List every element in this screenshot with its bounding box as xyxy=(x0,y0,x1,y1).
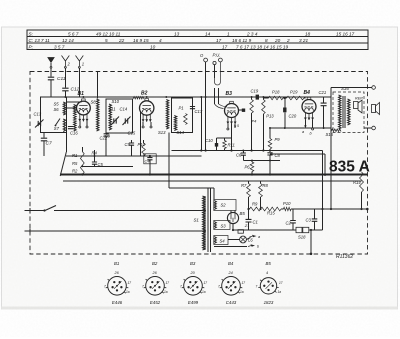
svg-text:P10: P10 xyxy=(138,142,146,147)
coil S8 xyxy=(74,105,77,132)
svg-text:15 16 17: 15 16 17 xyxy=(336,31,355,36)
capacitor C20 xyxy=(284,98,286,108)
choke S18 xyxy=(296,227,302,232)
svg-text:S15: S15 xyxy=(326,132,334,137)
resistor R14 xyxy=(360,172,364,192)
svg-text:B5: B5 xyxy=(240,211,246,216)
svg-text:P.U.: P.U. xyxy=(213,53,221,58)
svg-text:7 6 17 13 18 14 16 15 19: 7 6 17 13 18 14 16 15 19 xyxy=(236,44,289,49)
svg-text:P6: P6 xyxy=(245,165,251,170)
loudspeaker xyxy=(372,105,376,113)
IF box frame xyxy=(172,98,193,133)
capacitor C12 xyxy=(62,88,68,91)
svg-text:17: 17 xyxy=(128,281,132,285)
wire IF box down xyxy=(168,133,170,175)
resistor R13 xyxy=(262,97,264,100)
junction dots on buses xyxy=(81,173,83,175)
IF transformer coil S14 xyxy=(174,116,177,131)
svg-text:C443: C443 xyxy=(226,300,237,305)
svg-text:R15: R15 xyxy=(267,211,275,216)
svg-text:17: 17 xyxy=(166,281,170,285)
HT return line xyxy=(233,229,297,231)
svg-text:5 6 7: 5 6 7 xyxy=(68,31,79,36)
svg-text:C14: C14 xyxy=(120,107,128,112)
svg-text:1: 1 xyxy=(227,31,230,36)
svg-text:S13: S13 xyxy=(158,130,166,135)
svg-text:5: 5 xyxy=(105,38,108,43)
svg-text:17: 17 xyxy=(279,281,283,285)
svg-text:R2: R2 xyxy=(72,169,78,174)
svg-text:S7: S7 xyxy=(54,126,60,131)
svg-text:26: 26 xyxy=(152,271,158,275)
HT bus line xyxy=(66,96,331,98)
chassis bus thick xyxy=(60,174,368,176)
svg-text:B4: B4 xyxy=(304,90,311,96)
tuned circuit box S5 S6 S7 xyxy=(40,97,66,133)
svg-text:S4: S4 xyxy=(220,239,226,244)
svg-text:C19: C19 xyxy=(251,89,259,94)
svg-text:18 6 11 9: 18 6 11 9 xyxy=(232,38,252,43)
S16 core xyxy=(342,96,344,128)
svg-text:20: 20 xyxy=(190,271,196,275)
svg-text:P13: P13 xyxy=(266,114,274,119)
svg-text:3 21: 3 21 xyxy=(299,38,309,43)
mains terminal bottom xyxy=(25,230,205,232)
bandfilter box S10 S11 xyxy=(106,99,132,133)
svg-text:a: a xyxy=(258,235,260,239)
coil S7 xyxy=(63,119,65,132)
transformer core xyxy=(207,188,209,252)
output terminal top xyxy=(331,87,372,89)
svg-text:17: 17 xyxy=(216,38,222,43)
svg-text:C7: C7 xyxy=(46,141,52,147)
valve B4 xyxy=(302,100,316,114)
svg-text:b: b xyxy=(257,245,259,249)
svg-text:2 3 4: 2 3 4 xyxy=(246,31,258,36)
svg-text:S3: S3 xyxy=(221,224,227,229)
dashed chassis border xyxy=(30,72,368,255)
bias tap line xyxy=(82,165,133,167)
mains switch xyxy=(43,209,45,211)
earth terminal xyxy=(48,58,54,63)
svg-text:R11362: R11362 xyxy=(336,254,353,260)
svg-text:5: 5 xyxy=(237,124,239,128)
svg-text:13: 13 xyxy=(174,31,180,36)
wire B3 cathode to bus xyxy=(231,124,233,151)
S16 secondary winding xyxy=(348,99,351,125)
svg-text:12 14: 12 14 xyxy=(62,38,74,43)
svg-text:P4: P4 xyxy=(252,119,258,124)
capacitor C22 xyxy=(104,134,109,136)
AVC bus line left xyxy=(66,155,201,157)
right HT vertical xyxy=(330,97,332,209)
svg-text:a: a xyxy=(302,130,304,134)
choke S15 xyxy=(331,129,341,132)
svg-text:B4: B4 xyxy=(228,261,234,266)
svg-text:E499: E499 xyxy=(188,300,199,305)
svg-text:20: 20 xyxy=(274,38,281,43)
svg-text:C15: C15 xyxy=(128,131,136,136)
svg-text:1a: 1a xyxy=(278,290,282,294)
svg-text:1: 1 xyxy=(82,62,84,67)
svg-text:8: 8 xyxy=(265,38,268,43)
coil S5 S6 xyxy=(63,102,65,115)
svg-text:B5: B5 xyxy=(266,261,272,266)
svg-text:S8: S8 xyxy=(91,100,97,105)
svg-text:C16: C16 xyxy=(70,131,78,136)
capacitor C21 xyxy=(323,97,325,103)
svg-text:C21: C21 xyxy=(319,90,327,95)
svg-text:C11: C11 xyxy=(57,76,66,82)
svg-text:S11: S11 xyxy=(109,107,116,112)
capacitor C11 xyxy=(48,77,54,80)
fuse Z1 xyxy=(238,230,243,234)
HT line junctions xyxy=(247,208,249,210)
svg-text:S18: S18 xyxy=(298,235,306,240)
svg-text:3 5 7: 3 5 7 xyxy=(54,44,65,49)
B3 cathode wires xyxy=(227,124,229,128)
capacitor C4 xyxy=(144,154,156,164)
svg-text:17: 17 xyxy=(222,44,228,49)
svg-text:B3: B3 xyxy=(190,261,196,266)
svg-text:B2: B2 xyxy=(152,261,158,266)
B4 cathode wires xyxy=(304,120,306,126)
svg-text:24: 24 xyxy=(228,271,233,275)
cathode return line xyxy=(270,127,331,129)
transformer primary S1 xyxy=(203,196,205,250)
capacitor C3 xyxy=(314,209,316,218)
detector bus line xyxy=(243,160,280,162)
svg-text:E452: E452 xyxy=(150,300,161,305)
svg-text:R8: R8 xyxy=(263,183,269,188)
svg-text:R5: R5 xyxy=(72,161,78,166)
svg-text:7: 7 xyxy=(256,284,258,288)
svg-text:S2: S2 xyxy=(221,203,227,208)
svg-text:1823: 1823 xyxy=(264,300,274,305)
svg-text:C2: C2 xyxy=(286,221,292,226)
svg-text:17: 17 xyxy=(242,281,246,285)
svg-text:4: 4 xyxy=(159,38,162,43)
svg-text:C20: C20 xyxy=(289,114,297,119)
svg-text:S:: S: xyxy=(29,31,34,36)
trimmer alignment table frame xyxy=(27,30,368,50)
valve B3 xyxy=(225,104,239,118)
grid wire to B1 xyxy=(66,101,81,103)
svg-text:B1: B1 xyxy=(114,261,120,266)
S16 primary winding xyxy=(339,95,342,129)
svg-text:1a: 1a xyxy=(240,290,244,294)
svg-text:16 9 15: 16 9 15 xyxy=(133,38,149,43)
P.U. terminal ring xyxy=(204,58,208,62)
IF transformer coil S13 xyxy=(166,100,169,130)
capacitor C2 xyxy=(292,209,294,220)
svg-text:1a: 1a xyxy=(126,290,130,294)
pilot lamp L6 xyxy=(240,236,247,243)
capacitor C17 xyxy=(190,107,195,109)
mains terminal top xyxy=(25,210,45,212)
winding S4 xyxy=(214,237,216,244)
svg-text:b: b xyxy=(310,132,312,136)
screen grid bus line xyxy=(172,150,323,152)
capacitor C1 xyxy=(248,209,250,219)
svg-text:S6: S6 xyxy=(54,107,60,112)
svg-text:E446: E446 xyxy=(112,300,123,305)
svg-text:P19: P19 xyxy=(290,90,298,95)
grid capacitor C8 xyxy=(242,109,245,112)
resistor P18 xyxy=(269,96,284,100)
svg-text:C13: C13 xyxy=(34,112,42,117)
svg-text:S10: S10 xyxy=(112,99,120,104)
valve B2 xyxy=(140,101,154,115)
svg-text:S1: S1 xyxy=(194,218,200,223)
835 A model label xyxy=(270,153,325,155)
paper texture xyxy=(0,0,1,1)
resistor R12 xyxy=(251,97,253,100)
svg-text:B2: B2 xyxy=(141,91,148,97)
P.U. terminals xyxy=(213,61,216,64)
aerial terminal 1 xyxy=(76,56,84,67)
svg-text:26: 26 xyxy=(114,271,120,275)
svg-text:17: 17 xyxy=(204,281,208,285)
wire aerial 1 down xyxy=(78,68,80,97)
wire aerial to C12 xyxy=(64,68,66,87)
wire diode load xyxy=(200,97,202,151)
svg-text:835 A: 835 A xyxy=(329,159,370,176)
HT feed line right xyxy=(323,208,368,210)
svg-text:C3: C3 xyxy=(306,218,312,223)
svg-text:1a: 1a xyxy=(164,290,168,294)
svg-text:22: 22 xyxy=(118,38,125,43)
winding S3 xyxy=(214,222,216,229)
vertical HT right xyxy=(322,209,324,230)
svg-text:S16: S16 xyxy=(341,86,349,91)
svg-text:R7: R7 xyxy=(241,183,247,188)
svg-text:P18: P18 xyxy=(272,90,280,95)
variable capacitor C13 xyxy=(38,121,40,126)
svg-text:REP: REP xyxy=(355,97,363,101)
svg-text:S5: S5 xyxy=(54,102,60,107)
P.U. wires xyxy=(205,62,207,151)
capacitor C8 xyxy=(267,153,272,155)
output terminal bottom xyxy=(364,127,372,129)
svg-text:4: 4 xyxy=(266,271,268,275)
svg-text:R14: R14 xyxy=(353,180,361,185)
svg-text:B3: B3 xyxy=(226,91,233,97)
grid lead to B2 xyxy=(133,97,144,100)
capacitor C16 xyxy=(68,127,73,129)
svg-text:R11: R11 xyxy=(228,143,235,148)
output transformer S16 dashed box xyxy=(333,92,364,133)
svg-text:R1: R1 xyxy=(72,153,77,158)
svg-text:C1: C1 xyxy=(253,220,258,225)
svg-text:P10: P10 xyxy=(283,201,291,206)
svg-text:R9: R9 xyxy=(252,202,258,207)
capacitor C7 xyxy=(43,133,45,138)
wire antenna feed vertical xyxy=(96,72,98,99)
lower bus line xyxy=(63,180,362,182)
svg-text:C: 13 7 11: C: 13 7 11 xyxy=(29,38,51,43)
svg-text:C5: C5 xyxy=(98,162,104,167)
valve B1 xyxy=(77,101,91,115)
band switch xyxy=(55,119,60,127)
capacitor C19 on bus xyxy=(256,95,259,100)
speaker driver REP xyxy=(354,102,359,109)
svg-text:10: 10 xyxy=(150,44,156,49)
svg-text:14: 14 xyxy=(205,31,211,36)
rectifier valve B5 xyxy=(227,212,238,223)
B1 cathode wires xyxy=(79,121,81,126)
svg-text:49 12 10 11: 49 12 10 11 xyxy=(96,31,121,36)
svg-text:C10: C10 xyxy=(205,138,213,143)
heater arrows a b xyxy=(246,238,250,240)
resistor P19 xyxy=(287,96,305,100)
coil S10 S11 winding xyxy=(109,104,112,130)
left feed diagonal xyxy=(60,152,66,176)
svg-text:P:: P: xyxy=(29,44,34,49)
svg-text:P1: P1 xyxy=(179,106,184,111)
coil S9 winding xyxy=(97,99,100,131)
svg-text:2: 2 xyxy=(286,38,290,43)
aerial terminal 2 xyxy=(62,56,70,67)
wire earth to C11 xyxy=(50,68,52,76)
svg-text:18: 18 xyxy=(305,31,311,36)
winding S2 xyxy=(214,201,216,210)
svg-text:P9: P9 xyxy=(275,137,281,142)
svg-text:1a: 1a xyxy=(202,290,206,294)
B2 cathode wires xyxy=(142,122,144,126)
